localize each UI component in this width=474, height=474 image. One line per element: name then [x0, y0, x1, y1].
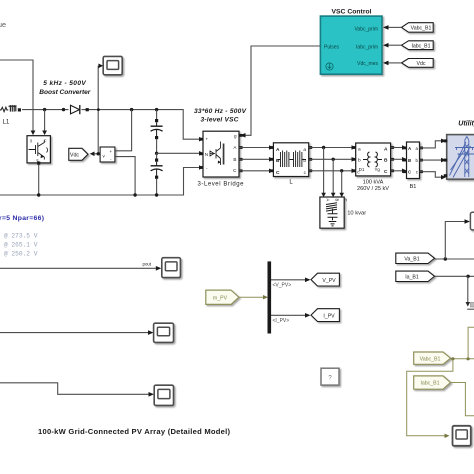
- svg-text:@ 250.2 V: @ 250.2 V: [4, 250, 38, 257]
- wire: Iabc_B1 to VSC input: [388, 44, 402, 46]
- port nubs: bridge outputs: [200, 134, 243, 172]
- voltage measurement block: [100, 147, 115, 162]
- svg-text:100-kW Grid-Connected PV Array: 100-kW Grid-Connected PV Array (Detailed…: [38, 427, 230, 436]
- wire: bridge C to L: [239, 170, 269, 172]
- svg-text:+: +: [110, 149, 113, 154]
- svg-text:Vabc_prim: Vabc_prim: [354, 27, 378, 33]
- wire: Iabc_B1 to right edge: [451, 383, 474, 416]
- wire: bus selector to V_PV: [271, 279, 305, 281]
- wire into Scope0 from Vdc measurement node: [97, 66, 99, 154]
- svg-text:10 kvar: 10 kvar: [347, 211, 366, 217]
- node: Vabc junction 2: [467, 357, 470, 360]
- node: bottom bus junction at v-meter drop: [133, 193, 136, 196]
- node: Va junction: [444, 257, 447, 260]
- choke L block: [273, 143, 308, 177]
- from tag Vdc (top): [402, 59, 434, 68]
- from tag Iabc_B1 (olive): [414, 376, 451, 389]
- svg-text:A: A: [384, 147, 388, 153]
- wire: m_PV to bus selector: [239, 296, 263, 298]
- capacitor C1 (upper DC-link cap): [151, 110, 163, 153]
- svg-text:V_PV: V_PV: [322, 278, 336, 284]
- bus selector bar: [268, 261, 272, 333]
- node: bus junction at x=156.6: [155, 108, 158, 111]
- svg-text:B: B: [335, 199, 340, 202]
- wire: bus selector to I_PV: [271, 314, 305, 316]
- svg-text:+: +: [206, 137, 209, 142]
- port nubs: transformer: [352, 146, 394, 172]
- wire: bottom DC bus: [0, 168, 199, 196]
- wire: B1 c to Utility: [420, 172, 442, 178]
- svg-text:Ia_B1: Ia_B1: [405, 274, 419, 280]
- svg-text:r=5 Npar=66): r=5 Npar=66): [0, 215, 44, 222]
- svg-text:Pulses: Pulses: [324, 44, 340, 50]
- scope Scope0 (top): [103, 56, 122, 74]
- svg-text:C: C: [276, 170, 280, 176]
- svg-text:Boost Converter: Boost Converter: [39, 89, 90, 96]
- wire: bus drop to IGBT collector: [44, 110, 46, 131]
- subsystem VSC Control block: [320, 16, 382, 74]
- node: cap-bank tap B: [332, 158, 335, 161]
- from tag m_PV (olive): [206, 290, 239, 304]
- from tag Iabc_B1 (top): [402, 41, 434, 50]
- svg-text:m_PV: m_PV: [213, 296, 228, 302]
- wire: Vabc_B1 to VSC input: [388, 26, 402, 28]
- wire: v-meter + to top bus: [115, 110, 132, 151]
- svg-text:Va_B1: Va_B1: [404, 256, 419, 262]
- wire: Va_B1 to right edge: [435, 258, 474, 260]
- source Utility block with pylon picture: [447, 135, 474, 180]
- svg-text:pout: pout: [143, 261, 152, 266]
- wire: v-meter - to bottom bus: [115, 157, 135, 195]
- unknown ? block: [321, 368, 339, 385]
- diode D1 on DC bus: [71, 105, 89, 114]
- svg-text:B: B: [408, 158, 411, 163]
- wire: B1 b to Utility: [420, 159, 442, 161]
- svg-text:ue: ue: [0, 20, 6, 29]
- svg-text:N: N: [205, 152, 208, 157]
- node: cap-bank tap C: [340, 169, 343, 172]
- svg-text:a: a: [358, 148, 361, 153]
- node: bus junction at x=98.6: [97, 108, 100, 111]
- svg-text:L: L: [289, 180, 293, 186]
- svg-text:3-level VSC: 3-level VSC: [201, 117, 239, 124]
- wire: B1 a to Utility: [420, 141, 442, 148]
- svg-text:100 kVA: 100 kVA: [363, 180, 384, 186]
- svg-text:C: C: [343, 199, 348, 202]
- inductor L1 (cut at left edge): [0, 106, 21, 112]
- node: bottom bus junction at capacitor column: [155, 193, 158, 196]
- svg-text:I_PV: I_PV: [323, 313, 335, 319]
- svg-text:3-Level Bridge: 3-Level Bridge: [198, 181, 245, 187]
- goto tag I_PV: [311, 309, 339, 322]
- from tag Ia_B1: [396, 271, 435, 281]
- svg-text:A: A: [326, 199, 331, 202]
- svg-text:Vabc_B1: Vabc_B1: [420, 356, 441, 362]
- svg-text:5 kHz - 500V: 5 kHz - 500V: [43, 80, 86, 87]
- svg-text:Vdc_mes: Vdc_mes: [357, 61, 378, 67]
- wire: Vdc to VSC input: [388, 62, 402, 64]
- node: Vabc junction 1: [451, 357, 454, 360]
- node: cap-bank tap A: [322, 146, 325, 149]
- transformer 100 kVA block: [356, 143, 391, 176]
- node: bus junction at x=63.5: [62, 108, 65, 111]
- goto tag V_PV: [311, 273, 339, 286]
- node: Ia junction: [466, 275, 469, 278]
- wire into scope2: [0, 332, 148, 334]
- wire: taps down to capacitor bank: [324, 148, 342, 194]
- wire: v-meter output to Vdc tag: [94, 153, 100, 155]
- port nubs: B1: [403, 147, 423, 174]
- wire: Pulses to bridge g port: [245, 46, 320, 135]
- svg-text:Vdc: Vdc: [417, 61, 426, 67]
- wire: Va up to edge block: [445, 222, 464, 260]
- capacitor C2 (lower DC-link cap): [151, 153, 163, 195]
- capacitor bank 10 kvar block: [320, 197, 348, 228]
- svg-text:<I_PV>: <I_PV>: [273, 318, 290, 324]
- scope Scope3: [154, 385, 173, 405]
- svg-text:a: a: [303, 148, 306, 153]
- wire: L a to transformer: [309, 147, 352, 149]
- wire into scope1: [0, 267, 156, 269]
- wire: Ia down branch with arrow: [467, 276, 469, 302]
- wire: transformer C to B1: [391, 170, 402, 172]
- transistor IGBT (boost switch): [27, 136, 50, 163]
- wire: top DC bus: [22, 110, 199, 140]
- svg-text:D1: D1: [359, 167, 365, 172]
- svg-text:33*60 Hz - 500V: 33*60 Hz - 500V: [194, 108, 247, 115]
- wire: L b to transformer: [309, 158, 352, 160]
- wire: Vabc_B1 net: [451, 358, 474, 360]
- svg-text:Vabc_B1: Vabc_B1: [411, 26, 432, 32]
- wire: IGBT emitter to bottom bus: [38, 163, 40, 195]
- svg-text:Yg: Yg: [375, 167, 381, 172]
- wire: L c to transformer: [309, 170, 352, 172]
- svg-text:Utility: Utility: [458, 120, 474, 127]
- svg-text:C: C: [384, 169, 388, 175]
- svg-text:B: B: [233, 157, 236, 162]
- measurement block B1: [407, 142, 420, 179]
- svg-text:@ 273.5 V: @ 273.5 V: [4, 232, 38, 239]
- svg-text:Iabc_prim: Iabc_prim: [356, 44, 378, 50]
- svg-text:B1: B1: [410, 184, 417, 190]
- wire: bridge A to L: [239, 147, 269, 149]
- wire: transformer A to B1: [391, 147, 402, 149]
- node: bus junction at x=44.6: [43, 108, 46, 111]
- wire into scope3 (stepped): [0, 383, 149, 395]
- node: bottom bus junction at IGBT emitter: [37, 193, 40, 196]
- port nubs: Utility: [444, 139, 448, 177]
- scope Scope1: [162, 258, 181, 278]
- from tag Va_B1: [396, 253, 435, 263]
- svg-text:@ 265.1 V: @ 265.1 V: [4, 242, 38, 249]
- svg-text:Iabc_B1: Iabc_B1: [411, 43, 430, 49]
- svg-text:Iabc_B1: Iabc_B1: [420, 381, 439, 387]
- svg-text:g: g: [30, 139, 32, 143]
- svg-text:L1: L1: [3, 120, 10, 126]
- svg-text:Vdc: Vdc: [70, 152, 80, 158]
- wire: transformer B to B1: [391, 158, 402, 160]
- wire: midpoint to VSC N port: [157, 152, 200, 154]
- block at right edge (cut): [470, 212, 474, 230]
- port nubs: L block: [270, 146, 312, 172]
- svg-text:<V_PV>: <V_PV>: [273, 283, 292, 289]
- svg-text:b: b: [303, 158, 306, 164]
- cut block at right edge: [471, 303, 474, 308]
- wire: bridge B to L: [239, 158, 269, 160]
- from tag Vabc_B1 (olive): [414, 352, 451, 364]
- svg-text:b: b: [358, 158, 361, 164]
- svg-text:B: B: [276, 158, 280, 164]
- node: DC midpoint junction: [155, 152, 158, 155]
- svg-text:A: A: [276, 147, 280, 153]
- wire: gate signal from left edge into IGBT: [0, 60, 33, 131]
- svg-text:B: B: [384, 158, 388, 164]
- goto tag Vdc: [69, 148, 88, 160]
- converter 3-Level Bridge block: [203, 131, 239, 177]
- scope Scope4 (bottom right): [453, 426, 471, 446]
- wire: lower stub to edge: [467, 308, 474, 310]
- svg-text:VSC Control: VSC Control: [331, 9, 371, 16]
- wire: Vabc down to scope4: [407, 359, 453, 436]
- wire: Vabc up branch to edge: [468, 327, 474, 359]
- wire: Ia_B1 to right edge: [435, 275, 474, 277]
- scope Scope2: [154, 323, 174, 342]
- svg-text:260V / 25 kV: 260V / 25 kV: [357, 186, 389, 192]
- from tag Vabc_B1 (top): [402, 23, 434, 33]
- node: bus junction at x=131.6: [130, 108, 133, 111]
- arrowhead into VSC + port: [199, 137, 204, 142]
- svg-text:g: g: [234, 133, 237, 138]
